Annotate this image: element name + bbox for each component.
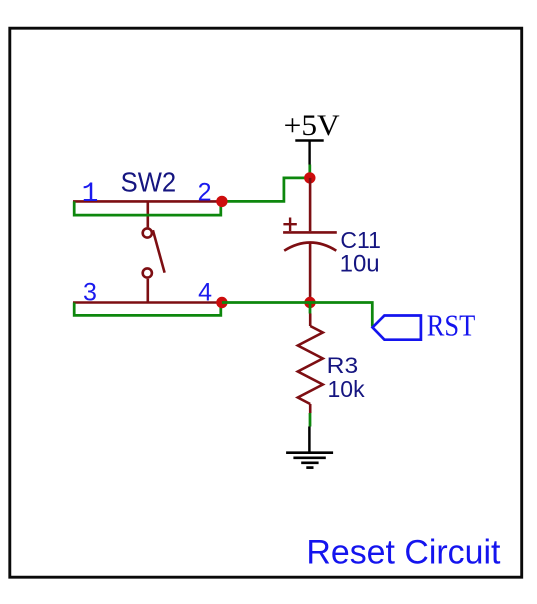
wire RST node to resistor (309, 303, 312, 314)
resistor R3 (298, 314, 323, 414)
svg-text:1: 1 (82, 179, 99, 210)
power +5V (284, 109, 340, 165)
wire +5V stub (308, 165, 311, 178)
svg-text:R3: R3 (327, 353, 359, 378)
svg-text:C11: C11 (340, 227, 381, 253)
svg-text:10k: 10k (328, 376, 366, 402)
junction pin 4 (216, 297, 227, 308)
svg-text:+5V: +5V (284, 109, 340, 142)
wire pin4 to RST node (222, 303, 372, 327)
svg-text:SW2: SW2 (121, 167, 177, 198)
svg-text:RST: RST (427, 307, 476, 342)
svg-text:3: 3 (83, 279, 97, 307)
capacitor C11 (283, 178, 337, 303)
wire resistor to ground (309, 413, 312, 427)
svg-text:Reset Circuit: Reset Circuit (306, 534, 500, 572)
svg-text:2: 2 (198, 179, 212, 207)
junction top node (304, 172, 315, 183)
svg-text:10u: 10u (340, 251, 380, 278)
svg-text:4: 4 (198, 279, 212, 307)
wire pin2 to +5V node (222, 178, 310, 202)
junction RST node (304, 297, 315, 308)
global label RST flag (373, 316, 421, 340)
wire loop under top bar (74, 201, 221, 215)
switch SW2 (73, 201, 222, 302)
wire loop under bottom bar (74, 303, 221, 316)
junction pin 2 (216, 196, 227, 207)
ground (286, 427, 333, 468)
